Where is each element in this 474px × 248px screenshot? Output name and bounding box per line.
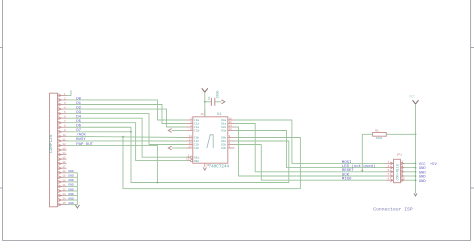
connector X1 COMPL25 body bbox=[49, 93, 58, 207]
wire MISO bbox=[261, 145, 385, 181]
svg-text:D4: D4 bbox=[76, 115, 81, 119]
connector X1 pin 9 bbox=[58, 129, 67, 133]
connector X1 pin 16 bbox=[58, 161, 67, 165]
svg-text:21: 21 bbox=[62, 184, 66, 187]
svg-text:D5: D5 bbox=[76, 120, 81, 124]
wire /ACK loop bbox=[123, 137, 300, 189]
connector X1 pin 12 bbox=[58, 143, 67, 147]
U1 output pin 12 O3a bbox=[221, 128, 234, 133]
U1 GND pin 10 bbox=[205, 163, 210, 167]
resistor R1 100k bbox=[373, 129, 387, 140]
U1 enable pin 19 OEb bbox=[186, 158, 200, 163]
wire JP1 right pin 8 bbox=[405, 175, 416, 177]
JP1 pin 2 bbox=[401, 161, 405, 165]
svg-text:OEb: OEb bbox=[194, 159, 199, 163]
svg-text:25: 25 bbox=[62, 202, 66, 205]
U1 input pin 4 I1a bbox=[186, 121, 200, 126]
JP1 pin 9 bbox=[386, 177, 394, 181]
svg-text:17: 17 bbox=[62, 166, 66, 169]
wire JP1 right pin 10 bbox=[405, 179, 416, 181]
svg-text:VCC: VCC bbox=[409, 95, 415, 99]
ground symbol at connector bbox=[75, 205, 79, 208]
wire PAP_OUT bbox=[67, 145, 158, 182]
connector JP1 CON-ML10 body bbox=[394, 153, 403, 182]
connector X1 pin 21 bbox=[58, 184, 67, 188]
JP1 pin 8 bbox=[401, 173, 405, 177]
svg-text:JP1: JP1 bbox=[397, 153, 403, 156]
svg-text:PAP_OUT: PAP_OUT bbox=[76, 143, 93, 147]
svg-text:20: 20 bbox=[62, 179, 66, 182]
svg-text:Connecteur ISP: Connecteur ISP bbox=[373, 206, 413, 212]
supply VCC symbol above U1 bbox=[202, 88, 208, 92]
connector X1 pin 3 bbox=[58, 102, 67, 106]
svg-text:O1b: O1b bbox=[221, 139, 226, 143]
supply VCC symbol right bbox=[413, 100, 419, 104]
svg-text:GND: GND bbox=[419, 180, 427, 184]
wire VCC to U1 pin 20 bbox=[204, 92, 206, 117]
wire R1 right to VCC bbox=[386, 133, 415, 135]
wire RESET bbox=[235, 124, 386, 172]
wire D6 bbox=[67, 127, 289, 182]
JP1 pin 7 bbox=[386, 173, 394, 177]
svg-text:14: 14 bbox=[62, 152, 66, 155]
wire JP1 right pin 6 bbox=[405, 171, 416, 173]
wire LED bbox=[235, 131, 386, 168]
wire D2 bbox=[67, 109, 186, 127]
wire MISO b bbox=[235, 144, 262, 146]
connector X1 pin 17 bbox=[58, 166, 67, 170]
svg-text:74HCT244: 74HCT244 bbox=[209, 165, 230, 170]
U1 output pin 7 O1b bbox=[221, 138, 234, 143]
wire C1 right bbox=[215, 101, 222, 103]
U1 enable pin 1 OEa bbox=[186, 154, 200, 159]
U1 input pin 17 I3b bbox=[186, 145, 200, 150]
connector X1 pin 20 bbox=[58, 179, 67, 183]
connector X1 pin 18 bbox=[58, 170, 67, 174]
connector X1 pin 6 bbox=[58, 116, 67, 120]
connector X1 pin 4 bbox=[58, 106, 67, 110]
JP1 pin 6 bbox=[401, 169, 405, 173]
U1 input pin 8 I3a bbox=[186, 128, 200, 133]
connector X1 pin 14 bbox=[58, 152, 67, 156]
U1 input pin 11 I0b bbox=[186, 135, 200, 140]
connector X1 pin 25 bbox=[58, 202, 67, 206]
JP1 pin 10 bbox=[401, 177, 406, 181]
connector X1 pin 23 bbox=[58, 193, 67, 197]
ground symbol below U1 bbox=[203, 167, 206, 170]
svg-text:+5V: +5V bbox=[430, 163, 438, 167]
connector X1 pin 19 bbox=[58, 175, 67, 179]
svg-text:24: 24 bbox=[62, 197, 66, 200]
svg-text:20: 20 bbox=[200, 113, 204, 116]
U1 output pin 14 O2a bbox=[221, 124, 234, 129]
capacitor C1 100n bbox=[208, 90, 221, 105]
connector X1 pin 7 bbox=[58, 120, 67, 124]
wire D4 bbox=[67, 118, 189, 157]
svg-text:D3: D3 bbox=[76, 111, 81, 115]
U1 output pin 18 O0a bbox=[221, 117, 234, 122]
svg-text:10: 10 bbox=[206, 164, 210, 167]
connector X1 pin 8 bbox=[58, 125, 67, 129]
svg-text:COMPL25: COMPL25 bbox=[49, 134, 54, 153]
JP1 pin 3 bbox=[386, 165, 394, 169]
wire D0 bbox=[67, 100, 186, 120]
svg-text:D6: D6 bbox=[76, 125, 81, 129]
JP1 pin 4 bbox=[401, 165, 405, 169]
ground symbol below ISP bbox=[414, 193, 417, 196]
connector X1 pin 2 bbox=[58, 97, 67, 101]
svg-text:100k: 100k bbox=[376, 136, 383, 140]
svg-text:O3a: O3a bbox=[221, 130, 226, 133]
svg-text:O3b: O3b bbox=[221, 146, 226, 150]
svg-text:O2b: O2b bbox=[221, 143, 226, 147]
svg-text:12: 12 bbox=[229, 128, 233, 131]
U1 output pin 9 O0b bbox=[221, 135, 234, 140]
U1 output pin 5 O2b bbox=[221, 142, 234, 147]
wire VCC vertical to ISP bbox=[415, 104, 417, 193]
svg-text:D0: D0 bbox=[76, 97, 81, 101]
connector X1 pin 22 bbox=[58, 188, 67, 192]
wire C1 left bbox=[205, 101, 212, 103]
U1 input pin 6 I2a bbox=[186, 124, 200, 129]
connector X1 pin 24 bbox=[58, 197, 67, 201]
connector X1 pin 1 bbox=[58, 93, 67, 97]
wire JP1 right pin 2 bbox=[405, 162, 416, 164]
ground arrow right of C1 bbox=[221, 100, 225, 104]
svg-text:16: 16 bbox=[62, 161, 66, 164]
svg-text:I1b: I1b bbox=[194, 139, 199, 143]
svg-text:23: 23 bbox=[62, 193, 66, 196]
U1 output pin 3 O3b bbox=[221, 145, 234, 150]
svg-text:18: 18 bbox=[62, 170, 66, 173]
svg-text:D2: D2 bbox=[76, 106, 81, 110]
wire BUSY bbox=[67, 140, 186, 142]
svg-text:I2b: I2b bbox=[194, 143, 199, 147]
svg-text:I0b: I0b bbox=[194, 136, 199, 140]
svg-text:MISO: MISO bbox=[342, 178, 352, 182]
wire R1 left to RESET bbox=[362, 134, 372, 171]
U1 input pin 2 I0a bbox=[186, 117, 200, 122]
wire D5 bbox=[67, 123, 189, 161]
svg-text:U1: U1 bbox=[217, 113, 222, 117]
wire D7 bbox=[67, 131, 132, 133]
svg-text:C1: C1 bbox=[208, 96, 211, 100]
svg-text:BUSY: BUSY bbox=[76, 138, 86, 142]
U1 output pin 16 O1a bbox=[221, 121, 234, 126]
wire /ACK bbox=[67, 136, 186, 137]
svg-text:CON-ML10: CON-ML10 bbox=[396, 164, 400, 180]
svg-text:10: 10 bbox=[62, 134, 66, 137]
ground arrow at pin 17 I3b bbox=[168, 146, 186, 150]
wire SCK bbox=[235, 127, 386, 176]
wire GND bus bbox=[67, 173, 78, 205]
ground arrow at pin 8 I3a bbox=[168, 129, 186, 133]
svg-text:D1: D1 bbox=[76, 102, 81, 106]
op IC U1 74HCT244 body bbox=[193, 113, 230, 169]
svg-text:17: 17 bbox=[189, 145, 193, 148]
svg-text:I3b: I3b bbox=[194, 146, 199, 150]
U1 input pin 15 I2b bbox=[186, 142, 200, 147]
wire JP1 right pin 4 bbox=[405, 167, 416, 169]
svg-text:11: 11 bbox=[62, 138, 66, 141]
svg-text:12: 12 bbox=[62, 143, 66, 146]
connector X1 pin 11 bbox=[58, 138, 67, 142]
wire MOSI bbox=[235, 120, 386, 163]
wire pin1 stub bbox=[67, 90, 72, 95]
connector X1 pin 10 bbox=[58, 134, 67, 138]
wire D1 bbox=[67, 105, 186, 124]
U1 VCC pin 20 bbox=[200, 110, 204, 117]
connector X1 pin 15 bbox=[58, 157, 67, 161]
wire D3 bbox=[67, 114, 186, 145]
svg-text:100n: 100n bbox=[217, 90, 221, 98]
svg-text:22: 22 bbox=[62, 188, 66, 191]
svg-text:D7: D7 bbox=[76, 129, 81, 133]
buffer glyph inside U1 bbox=[207, 135, 213, 148]
JP1 pin 1 bbox=[386, 161, 394, 165]
svg-text:15: 15 bbox=[62, 157, 66, 160]
JP1 pin 5 bbox=[386, 169, 394, 173]
svg-text:R1: R1 bbox=[375, 129, 379, 132]
connector X1 pin 13 bbox=[58, 147, 67, 151]
svg-text:13: 13 bbox=[62, 147, 66, 150]
svg-text:I3a: I3a bbox=[194, 130, 199, 133]
svg-text:19: 19 bbox=[62, 175, 66, 178]
svg-text:O0b: O0b bbox=[221, 136, 226, 140]
connector X1 pin 5 bbox=[58, 111, 67, 115]
U1 input pin 13 I1b bbox=[186, 138, 200, 143]
